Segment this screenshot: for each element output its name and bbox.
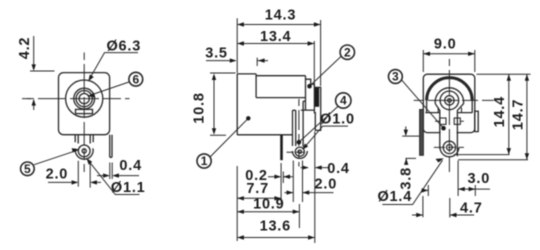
balloon 4 bbox=[336, 93, 351, 108]
dimension 13.6 bbox=[237, 132, 315, 244]
dimension 7.7 bbox=[237, 196, 281, 200]
svg-text:3.0: 3.0 bbox=[468, 171, 491, 187]
body outline middle view bbox=[237, 74, 314, 135]
svg-text:4.7: 4.7 bbox=[460, 201, 483, 217]
front pin rounded end arc bbox=[292, 151, 307, 158]
shell side lines bbox=[438, 108, 461, 113]
dimension 3.0 bbox=[422, 161, 490, 197]
svg-text:14.3: 14.3 bbox=[265, 7, 296, 23]
leader balloon 4 bbox=[297, 106, 339, 144]
dimension 3.5 bbox=[206, 58, 268, 66]
top extension line bbox=[477, 73, 531, 75]
right step profile bbox=[306, 79, 315, 87]
svg-text:3.5: 3.5 bbox=[205, 46, 228, 62]
front pin circle bbox=[295, 147, 304, 156]
svg-text:14.7: 14.7 bbox=[510, 99, 526, 130]
svg-text:7.7: 7.7 bbox=[246, 181, 269, 197]
ring inner bbox=[76, 91, 92, 107]
leader balloon 6 bbox=[87, 82, 129, 97]
label O6.3 with leader bbox=[88, 53, 138, 82]
dimension 2.0 middle bbox=[284, 161, 333, 203]
balloon 3 bbox=[389, 70, 403, 84]
svg-text:0.4: 0.4 bbox=[119, 158, 142, 174]
square ticks bbox=[435, 120, 464, 122]
neck white gap over body bottom edge bbox=[441, 131, 457, 135]
right tab bbox=[475, 111, 478, 131]
protrusion below body bbox=[75, 135, 93, 144]
dimension 10.8 bbox=[210, 73, 236, 135]
hole O1.1 bbox=[82, 149, 86, 153]
leader balloon 1 bbox=[210, 116, 250, 157]
front pin middle view bbox=[293, 101, 306, 147]
balloon 1 bbox=[197, 154, 211, 168]
dimension 13.4 bbox=[237, 41, 314, 86]
dimension 3.8 bbox=[402, 127, 420, 165]
small square left bbox=[440, 118, 446, 124]
dimension 14.4 bbox=[507, 74, 511, 154]
svg-text:9.0: 9.0 bbox=[434, 37, 457, 53]
bell sides bbox=[427, 100, 473, 112]
vertical centerline bbox=[83, 53, 85, 173]
terminal outline bbox=[314, 87, 320, 130]
small square right bbox=[454, 118, 460, 124]
svg-text:3: 3 bbox=[392, 70, 399, 84]
svg-text:10.9: 10.9 bbox=[253, 197, 284, 213]
svg-text:2: 2 bbox=[344, 45, 351, 59]
dimension 2.0 left view bbox=[48, 161, 101, 188]
pin sleeve circle bbox=[443, 141, 455, 153]
dimension 10.9 bbox=[237, 204, 299, 228]
svg-text:14.4: 14.4 bbox=[492, 96, 508, 127]
svg-text:13.4: 13.4 bbox=[260, 29, 291, 45]
body outline left view bbox=[59, 73, 110, 135]
label O1.0 with leader bbox=[302, 126, 348, 150]
balloon 6 bbox=[129, 72, 143, 86]
ring outer bbox=[74, 88, 95, 109]
balloon 2 bbox=[340, 45, 354, 59]
dimension 0.4 left view bbox=[97, 163, 139, 180]
terminal black strip bbox=[315, 88, 319, 107]
center rings bbox=[440, 91, 459, 110]
label O1.1 with leader bbox=[87, 158, 140, 194]
pin hole horizontal centerline bbox=[287, 151, 308, 153]
pin hole outer bbox=[447, 145, 453, 151]
svg-text:10.8: 10.8 bbox=[192, 92, 208, 123]
dimension 0.4 middle bbox=[301, 165, 330, 169]
svg-text:5: 5 bbox=[24, 162, 31, 176]
svg-text:13.6: 13.6 bbox=[260, 218, 291, 234]
pin hole centerline bbox=[434, 146, 464, 148]
dimension 4.7 bbox=[412, 196, 474, 218]
leader balloon 3 bbox=[402, 80, 446, 131]
svg-text:2.0: 2.0 bbox=[315, 177, 338, 193]
svg-text:2.0: 2.0 bbox=[46, 166, 69, 182]
svg-text:Ø6.3: Ø6.3 bbox=[106, 39, 141, 55]
balloon 5 bbox=[21, 162, 35, 176]
label O1.4 with leader bbox=[382, 158, 444, 204]
svg-text:Ø1.1: Ø1.1 bbox=[111, 180, 146, 196]
key slot bbox=[76, 109, 93, 113]
pin rounded end bbox=[440, 147, 459, 156]
bell heavy arc bbox=[427, 78, 473, 101]
pin centerline bbox=[298, 99, 300, 167]
ledges bbox=[425, 112, 472, 114]
hole O1.0 bbox=[298, 150, 301, 153]
protrusion outer arc bbox=[75, 148, 93, 159]
center pin circle bbox=[79, 94, 89, 104]
svg-text:1: 1 bbox=[201, 154, 208, 168]
dimension 9.0 bbox=[423, 50, 475, 72]
leader balloon 2 bbox=[307, 56, 341, 88]
svg-text:Ø1.0: Ø1.0 bbox=[320, 112, 355, 128]
vertical centerline right view bbox=[448, 59, 450, 172]
svg-text:4: 4 bbox=[340, 94, 347, 108]
dimension 0.2 bbox=[268, 163, 293, 202]
dimension 14.3 bbox=[237, 18, 320, 86]
svg-text:3.8: 3.8 bbox=[398, 167, 414, 190]
side pin left view bbox=[110, 135, 112, 158]
svg-text:6: 6 bbox=[132, 72, 139, 86]
barrel outer circle bbox=[66, 80, 103, 117]
pin bottom extension lines bbox=[454, 155, 528, 160]
dimension 4.2 bbox=[22, 36, 55, 110]
leader balloon 5 bbox=[34, 148, 79, 165]
inner keyhole bbox=[435, 88, 463, 156]
body outline right view bbox=[423, 74, 475, 132]
dimension 14.7 bbox=[525, 74, 529, 160]
mounting peg bbox=[280, 135, 283, 160]
horizontal centerline right view bbox=[414, 99, 494, 101]
horizontal centerline bbox=[27, 98, 130, 100]
left tab bbox=[420, 110, 424, 156]
svg-text:0.4: 0.4 bbox=[327, 161, 350, 177]
svg-text:4.2: 4.2 bbox=[17, 37, 33, 60]
protrusion circle bbox=[78, 145, 90, 157]
svg-text:Ø1.4: Ø1.4 bbox=[377, 189, 412, 205]
